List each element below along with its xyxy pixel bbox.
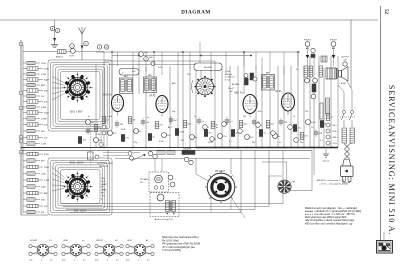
svg-text:1 GF: 1 GF (101, 178, 106, 180)
svg-text:0,1: 0,1 (50, 260, 53, 262)
wire bottom run 1 (60, 203, 283, 205)
wire vmain-24 (303, 66, 305, 148)
wire vmain-18 (261, 58, 263, 148)
component U24 (266, 121, 270, 128)
wire vdrop-10 (269, 52, 271, 72)
component U19 (231, 130, 234, 137)
resistor group L6 (23, 90, 27, 92)
junction J6 (237, 147, 239, 149)
svg-text:2M: 2M (243, 116, 246, 118)
svg-text:UF 41: UF 41 (149, 95, 156, 98)
component U25 (273, 134, 278, 139)
junction J2 (145, 147, 147, 149)
svg-text:TILLSATS: TILLSATS (140, 178, 149, 181)
component U21 (245, 135, 250, 140)
terminal border D (19, 91, 23, 95)
component U27 (293, 125, 296, 132)
resistor group L4 (23, 79, 27, 81)
terminal border B (19, 42, 23, 46)
svg-text:AC: AC (229, 90, 233, 93)
svg-text:AO=MW: AO=MW (204, 66, 212, 69)
svg-text:MV: MV (41, 161, 45, 163)
svg-text:25k: 25k (187, 74, 190, 76)
mains plug (343, 160, 351, 167)
wire vmain-0 (95, 65, 97, 148)
resistor group L22 (23, 192, 27, 194)
svg-text:ANSLUT: ANSLUT (56, 56, 64, 59)
wire vmain-30 (337, 56, 339, 148)
power cord twisted (345, 144, 350, 149)
svg-text:UL41: UL41 (127, 239, 132, 242)
svg-text:A-047: A-047 (340, 82, 347, 85)
title rule (0, 19, 378, 21)
svg-text:+230 v: +230 v (332, 137, 339, 139)
wire col-sw1-1 (52, 82, 65, 85)
oscillator coil box (194, 63, 222, 71)
svg-text:0,1: 0,1 (83, 260, 86, 262)
svg-text:1M: 1M (133, 120, 136, 122)
wire vdrop-9 (255, 52, 257, 69)
svg-text:UBC 41: UBC 41 (234, 92, 243, 95)
component U22 (252, 120, 256, 122)
wire col-sw1-2 (52, 87, 65, 89)
terminal border H (19, 150, 23, 154)
svg-text:BV8 - BV14: BV8 - BV14 (74, 211, 87, 213)
wire vmain-10 (189, 66, 191, 148)
wire osc down b (210, 71, 212, 82)
wire short run a (103, 152, 140, 154)
wire vmain-13 (221, 66, 223, 148)
svg-text:1n: 1n (331, 117, 333, 119)
junction J7 (261, 147, 263, 149)
junction J15 (243, 51, 245, 53)
svg-text:3 AB2: 3 AB2 (101, 183, 107, 186)
svg-text:100k: 100k (121, 129, 125, 131)
svg-text:STOR NEG-MOTK: STOR NEG-MOTK (97, 163, 114, 165)
wire col-sw2-0 (52, 167, 65, 177)
terminal border E (19, 135, 23, 139)
svg-text:chassie: chassie (323, 161, 331, 163)
wire vmain-4 (138, 52, 140, 94)
terminal output (343, 62, 347, 66)
wire vdrop-2 (145, 52, 147, 72)
capacitor grid dark a (245, 78, 249, 85)
junction J3 (169, 147, 171, 149)
svg-text:UL 41: UL 41 (275, 90, 282, 93)
wire col-sw1-4 (52, 93, 65, 100)
wire hf run b (96, 51, 300, 53)
svg-text:25k: 25k (160, 125, 163, 127)
test point G2 (102, 131, 106, 135)
svg-text:2: 2 (138, 260, 139, 262)
test point T1 (238, 129, 243, 134)
wire loop riser 3 (282, 150, 284, 203)
wire fan left (269, 175, 282, 177)
resistor R40 (304, 66, 308, 77)
test point T6 (203, 125, 208, 130)
component U33 (86, 120, 91, 125)
svg-text:OUTPUT: OUTPUT (341, 57, 350, 59)
svg-text:47k: 47k (99, 140, 102, 142)
box NNA anslut (182, 151, 195, 155)
wire loop riser 1 (254, 150, 256, 209)
wire front link (307, 59, 309, 66)
wire vdrop-12 (297, 52, 299, 66)
svg-text:10n: 10n (266, 128, 269, 130)
svg-text:2 Radio: 2 Radio (224, 74, 233, 76)
svg-text:AC: AC (145, 239, 149, 242)
svg-text:UBC41: UBC41 (96, 239, 103, 242)
wire hf run c (104, 60, 215, 62)
trimmer C5 (139, 52, 144, 57)
wire vmain-5 (145, 66, 147, 148)
svg-text:«: « (227, 124, 228, 126)
svg-text:10k: 10k (271, 124, 274, 126)
wire vmain-3 (132, 66, 134, 148)
component U6 (141, 120, 145, 122)
wire vdrop-3 (161, 52, 163, 75)
loudspeaker BV A 297 (207, 173, 235, 201)
rotary switch tone (197, 78, 214, 95)
svg-text:10k: 10k (146, 122, 149, 124)
svg-text:FM: FM (292, 182, 295, 184)
transformer output T2 (326, 68, 336, 79)
svg-text:6,3v: 6,3v (126, 260, 129, 262)
wire col-sw2-1 (52, 173, 65, 180)
wire vmain-26 (313, 56, 315, 175)
component U3 (121, 135, 124, 142)
wire vmain-8 (177, 66, 179, 148)
wire band loop 1-4 (56, 67, 105, 124)
component U11 (175, 129, 178, 136)
terminal border F (19, 139, 23, 143)
svg-text:25pF: 25pF (44, 113, 50, 115)
resistor R43 dark (312, 84, 316, 92)
svg-text:52: 52 (383, 9, 388, 15)
IF transformer MF3 (262, 75, 275, 91)
svg-text:UCH41: UCH41 (30, 239, 37, 242)
junction J16 (297, 51, 299, 53)
svg-text:8n: 8n (216, 127, 218, 129)
svg-text:AF REG: AF REG (232, 83, 240, 86)
svg-text:KOPL: KOPL (70, 56, 75, 58)
terminal s3 (99, 142, 103, 146)
resistor R42 (319, 66, 323, 77)
wire input to loops (82, 51, 104, 53)
svg-text:0,1M: 0,1M (41, 144, 46, 146)
wire vmain-25 (309, 56, 311, 148)
svg-text:25k: 25k (284, 122, 287, 124)
svg-text:460 kc/s Horn mot i messlov: 460 kc/s Horn mot i messlov Naturligtvis… (305, 222, 353, 225)
svg-text:220k: 220k (96, 134, 100, 136)
svg-text:7 K1: 7 K1 (101, 195, 105, 197)
wire loop riser 2 (268, 150, 270, 206)
rotary band switch BV8 rear (67, 176, 88, 197)
component U14 (197, 119, 201, 121)
svg-text:2200: 2200 (44, 167, 50, 169)
wire speaker down a (210, 195, 212, 213)
component U17 (218, 134, 223, 139)
resistor group L1 (23, 62, 27, 64)
resistor ballast a (342, 128, 347, 143)
diode arrow 2 (332, 55, 336, 59)
terminal n1 (184, 157, 188, 161)
component U1 (108, 131, 113, 136)
wire vmain-2 (111, 52, 113, 93)
test point V2 (326, 129, 330, 133)
speaker horn (339, 71, 342, 78)
tube V2 UF41 (156, 96, 168, 113)
wire vmain-21 (283, 66, 285, 148)
resistor group L7 (23, 95, 27, 97)
svg-text:SERVICEANVISNING: MINI 510 A.: SERVICEANVISNING: MINI 510 A. (387, 85, 396, 235)
test point T0 (210, 137, 215, 142)
resistor group L18 (23, 166, 27, 168)
junction J18 (200, 55, 202, 57)
wire vmain-19 (269, 89, 271, 148)
junction J12 (111, 51, 113, 53)
component U8 (155, 122, 159, 129)
resistor group L16 (23, 153, 27, 155)
logo Dux box (377, 241, 393, 254)
component U23 (259, 130, 262, 137)
component U32 (326, 114, 330, 121)
test point T2 (256, 123, 261, 128)
terminal M1 (97, 45, 101, 49)
component U20 (239, 121, 243, 128)
svg-text:PACK+102: PACK+102 (99, 165, 109, 168)
wire speaker diag (229, 194, 245, 218)
svg-text:FRONT: FRONT (304, 40, 312, 42)
wire vmain-27 (318, 56, 320, 148)
wire aerial terminal drop (54, 20, 56, 38)
resistor group L14 (23, 137, 27, 139)
resistor group L9 (23, 106, 27, 108)
svg-text:12k: 12k (305, 111, 308, 113)
svg-text:50pF: 50pF (44, 80, 50, 82)
svg-text:6,3v: 6,3v (62, 260, 65, 262)
resistor group L23 (23, 199, 27, 201)
component U37 (94, 138, 99, 143)
resistor group L24 (23, 205, 27, 207)
wire col-sw1-0 (52, 77, 65, 83)
svg-text:JORD: JORD (41, 119, 47, 121)
svg-text:«: « (208, 127, 209, 129)
svg-text:47k: 47k (113, 133, 116, 135)
svg-text:1k: 1k (293, 116, 295, 118)
svg-text:DIAGRAM: DIAGRAM (181, 10, 211, 16)
tube V3 UBC41 (243, 95, 257, 114)
wire vdrop-4 (177, 52, 179, 66)
component U15 (204, 130, 207, 137)
wire band loop 2-2 (51, 160, 110, 212)
junction J1 (132, 147, 134, 149)
svg-text:440 MC/s = Karlskrona Ö – K: 440 MC/s = Karlskrona Ö – K (317, 179, 345, 182)
svg-text:0,5M: 0,5M (311, 122, 316, 124)
junction J19 (250, 55, 252, 57)
svg-text:M: M (106, 47, 108, 49)
svg-text:2: 2 (41, 260, 42, 262)
wire bottom run 4 (69, 212, 241, 214)
wire v101 (100, 128, 102, 148)
coil box 2 (119, 69, 139, 76)
junction J0 (103, 147, 105, 149)
terminal n4 (153, 154, 157, 158)
wire vdrop-11 (283, 52, 285, 75)
svg-text:0,5M: 0,5M (159, 141, 164, 143)
terminal n3 (148, 151, 152, 155)
svg-text:2: 2 (107, 260, 108, 262)
wire vmain-14 (229, 66, 231, 148)
svg-text:2 LB: 2 LB (100, 181, 106, 183)
wire vmain-29 (330, 56, 332, 148)
wire vmain-7 (169, 66, 171, 148)
terminal border G (19, 106, 23, 110)
wire loop riser 0 (240, 150, 242, 212)
svg-text:ANT: ANT (44, 192, 49, 195)
dial lamp fan (278, 180, 291, 193)
wire short run b (103, 155, 128, 157)
terminal s1 (128, 152, 132, 156)
svg-text:5 AB1: 5 AB1 (101, 189, 106, 192)
terminal mid (311, 48, 315, 52)
switch mains S1 (343, 111, 346, 114)
test point T4 (288, 125, 293, 130)
resistor ballast b (350, 128, 355, 143)
junction J10 (311, 147, 313, 149)
resistor group L19 (23, 173, 27, 175)
resistor R45 dark (326, 98, 330, 114)
wire vdrop-0 (117, 52, 119, 66)
wire hf run a (112, 55, 252, 57)
test point V4 (326, 141, 330, 145)
resistor group L3 (23, 73, 27, 75)
component U26 (279, 120, 283, 122)
capacitor grid dark b (250, 73, 254, 80)
svg-text:UF41: UF41 (63, 239, 68, 242)
tube V1 UCH41 (112, 95, 124, 112)
svg-text:50pF: 50pF (41, 187, 47, 189)
right margin divider (380, 6, 382, 241)
svg-text:«: « (215, 139, 216, 141)
resistor group L5 (23, 84, 27, 86)
coil small mid (157, 151, 165, 154)
wire vdrop-7 (225, 52, 227, 75)
arrow storneg (131, 155, 145, 162)
svg-text:25+47: 25+47 (227, 87, 235, 90)
component U16 (211, 122, 215, 129)
junction J4 (189, 147, 191, 149)
svg-text:2n: 2n (147, 117, 149, 119)
junction J5 (214, 147, 216, 149)
IF transformer MF1 (120, 78, 133, 94)
component U9 (162, 133, 167, 138)
diode arrow 1 (306, 55, 310, 59)
resistor group L12 (23, 124, 27, 126)
wire fan feeds (286, 162, 288, 180)
test point V1 (326, 123, 330, 127)
svg-text:Anslutn av högt. P.U.: Anslutn av högt. P.U. (154, 218, 174, 221)
junction J9 (303, 147, 305, 149)
wire antenna lead-in (81, 34, 83, 60)
svg-text:0,1: 0,1 (147, 260, 150, 262)
wire left border outer (20, 40, 22, 215)
wire vdrop-1 (132, 52, 134, 69)
wire logo stem (383, 232, 385, 240)
resistor group L15 (23, 143, 27, 145)
wire col-sw1-3 (52, 91, 65, 94)
test point G1 (102, 125, 106, 129)
trimmer C6 (144, 57, 149, 62)
terminal E (55, 28, 59, 32)
svg-text:6,3v: 6,3v (29, 260, 32, 262)
svg-text:4n: 4n (88, 116, 90, 118)
svg-text:0,1µF: 0,1µF (107, 116, 113, 118)
svg-text:BV8 + BV14: BV8 + BV14 (70, 162, 84, 165)
resistor group L13 (23, 130, 27, 132)
wire band loop 1-1 (48, 60, 112, 131)
resistor group L8 (23, 101, 27, 103)
ground earth top-left (54, 42, 56, 45)
wire pu drops (154, 159, 156, 173)
component U36 (94, 125, 98, 132)
component U31 (320, 121, 323, 128)
test point T3 (271, 131, 276, 136)
wire chassis bus main (21, 147, 196, 149)
antenna symbol (79, 28, 83, 35)
wire vdrop-8 (243, 52, 245, 66)
wire speaker down b (230, 199, 232, 210)
terminal KOPL (70, 48, 75, 53)
svg-text:ANT: ANT (41, 84, 46, 87)
resistor group L2 (23, 68, 27, 70)
test point T5 (294, 138, 299, 143)
component U2 (115, 122, 119, 124)
svg-text:2: 2 (74, 260, 75, 262)
junction J14 (182, 51, 184, 53)
wire vmain-6 (153, 52, 155, 95)
component U13 (190, 135, 195, 140)
IF transformer MF2 (144, 77, 157, 93)
wire vmain-17 (255, 66, 257, 148)
svg-text:NNA ANSL: NNA ANSL (183, 148, 191, 151)
wire band loop 2-6 (61, 170, 101, 204)
wire col-sw2-4 (52, 188, 65, 191)
wire band loop 2-5 (58, 167, 102, 206)
box below bus (88, 152, 94, 160)
wire vmain-20 (277, 66, 279, 148)
wire input row (23, 51, 58, 53)
wire band loop 2-1 (48, 158, 112, 215)
wire speaker feed (195, 159, 197, 175)
svg-text:0,5M: 0,5M (180, 132, 185, 134)
junction J11 (330, 147, 332, 149)
wire band loop 2-4 (56, 165, 105, 208)
svg-text:0,5M: 0,5M (41, 107, 46, 109)
resistor group L11 (23, 118, 27, 120)
wire col-sw2-3 (52, 184, 65, 187)
resistor R41 (309, 66, 313, 77)
junction J8 (283, 147, 285, 149)
resistor group L25 (23, 211, 27, 213)
wire vmain-23 (297, 52, 299, 148)
connector pickup box (149, 172, 169, 192)
wire vmain-11 (195, 70, 197, 148)
wire col-sw2-2 (52, 179, 65, 183)
resistor group L17 (23, 160, 27, 162)
component U7 (148, 134, 151, 141)
svg-text:a b: a b (82, 240, 85, 242)
